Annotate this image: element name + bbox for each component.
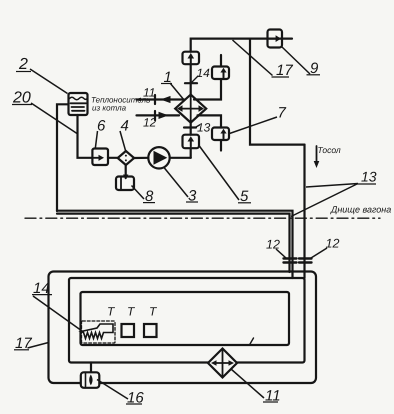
heat exchanger diamond 1 bbox=[175, 95, 206, 123]
pump box above heat exchanger bbox=[183, 52, 200, 64]
valve box 9 bbox=[268, 30, 283, 48]
tick valve 14 bbox=[185, 82, 197, 84]
leader 17 bottom bbox=[28, 343, 49, 349]
wagon floor dash-dot line bbox=[25, 217, 380, 219]
leader 11 bottom bbox=[231, 369, 264, 398]
leader 8 bbox=[132, 186, 145, 200]
svg-text:6: 6 bbox=[97, 118, 106, 135]
svg-text:13: 13 bbox=[197, 121, 211, 135]
coupling 12 right bbox=[299, 257, 312, 259]
underline label 16 bbox=[126, 403, 142, 405]
underline label 20 bbox=[12, 104, 32, 106]
underline label 1 bbox=[161, 83, 172, 85]
leader 20 bbox=[31, 103, 77, 134]
wire tank bottom pipe bbox=[78, 115, 93, 158]
svg-text:7: 7 bbox=[278, 105, 287, 122]
wire double supply line to underfloor tank bbox=[57, 211, 293, 278]
underline label 8 bbox=[143, 202, 155, 204]
underline label 17 bottom bbox=[14, 349, 29, 351]
valve diamond 4 bbox=[118, 151, 134, 165]
heater element 14 bbox=[81, 324, 113, 339]
svg-text:8: 8 bbox=[145, 188, 154, 205]
underline label 13 right bbox=[357, 183, 376, 185]
expansion tank 2 bbox=[69, 93, 88, 115]
svg-text:2: 2 bbox=[18, 56, 28, 73]
svg-text:14: 14 bbox=[33, 280, 50, 297]
leader 9 bbox=[282, 47, 311, 75]
svg-text:12: 12 bbox=[143, 116, 157, 130]
coupling 12 left bbox=[284, 257, 297, 259]
wire top header line bbox=[191, 39, 292, 52]
wire outlet line 11 bbox=[137, 98, 185, 100]
wire right pipe down to tank B bbox=[303, 145, 305, 278]
leader 6 bbox=[95, 131, 97, 149]
underline label 2 bbox=[16, 71, 31, 73]
middle tank shell B bbox=[69, 278, 305, 363]
svg-text:12: 12 bbox=[266, 238, 280, 252]
leader lines bbox=[28, 40, 359, 399]
wire tank left pipe 20 bbox=[57, 104, 69, 211]
svg-text:Днище вагона: Днище вагона bbox=[330, 205, 391, 215]
svg-text:20: 20 bbox=[12, 90, 31, 107]
leader 13 right upper bbox=[306, 184, 358, 188]
sensor box lower right bbox=[198, 115, 222, 127]
thermostat square 2 bbox=[122, 324, 135, 337]
leader 4 bbox=[120, 131, 126, 151]
drain valve 16 bbox=[90, 363, 92, 373]
svg-text:из котла: из котла bbox=[92, 104, 127, 113]
underline label 14 bottom bbox=[32, 294, 52, 296]
svg-text:11: 11 bbox=[265, 388, 281, 405]
underline label 11 bottom bbox=[263, 401, 278, 403]
pump box 5 below diamond bbox=[183, 135, 200, 149]
Tosol arrow bbox=[316, 146, 318, 162]
wire inlet line 12 bbox=[137, 114, 180, 116]
wire valve4 to pump bbox=[134, 157, 148, 159]
svg-text:1: 1 bbox=[164, 69, 172, 86]
svg-text:13: 13 bbox=[361, 169, 377, 185]
tick on inner tank bottom bbox=[250, 338, 254, 344]
leader 2 bbox=[30, 69, 68, 94]
circulation valve diamond 11 bbox=[208, 349, 237, 378]
svg-text:14: 14 bbox=[197, 66, 211, 80]
leader 3 bbox=[164, 168, 188, 198]
svg-text:3: 3 bbox=[188, 188, 197, 205]
leader 12 left bbox=[276, 249, 286, 258]
inner tank C bbox=[81, 292, 290, 345]
svg-text:Тосол: Тосол bbox=[318, 145, 341, 155]
wire box6 to valve 4 bbox=[108, 157, 118, 159]
pump 3 bbox=[148, 147, 169, 168]
underline label 17 top bbox=[272, 76, 290, 78]
leader 17 top bbox=[233, 40, 273, 76]
leader 5 bbox=[199, 146, 239, 201]
relay box 8 bbox=[125, 165, 127, 178]
svg-text:4: 4 bbox=[121, 118, 129, 135]
svg-text:5: 5 bbox=[240, 188, 249, 205]
underlines bbox=[12, 72, 376, 405]
underline label 3 bbox=[186, 201, 198, 203]
sensor box upper right bbox=[220, 55, 222, 67]
underline label 9 bbox=[307, 74, 321, 76]
underline label 5 bbox=[238, 202, 251, 204]
filter box 6 bbox=[92, 149, 108, 166]
wire box to diamond with tick 14 bbox=[190, 64, 192, 94]
svg-text:16: 16 bbox=[127, 390, 144, 407]
leader 14 bottom bbox=[33, 296, 82, 331]
thermostat square 3 bbox=[144, 324, 157, 337]
wire vertical drop from header to Tosol corner bbox=[250, 39, 305, 145]
svg-text:12: 12 bbox=[326, 237, 340, 251]
leader 1 bbox=[170, 83, 185, 101]
leader 12 right bbox=[311, 248, 327, 258]
leader 13 right lower bbox=[291, 184, 358, 217]
leader 16 bbox=[97, 380, 128, 400]
tick valve 13 bbox=[190, 123, 192, 135]
svg-text:9: 9 bbox=[310, 60, 319, 77]
svg-text:17: 17 bbox=[15, 335, 32, 352]
outer tank shell A bbox=[49, 272, 317, 384]
leader 7 bbox=[230, 117, 278, 134]
svg-text:17: 17 bbox=[276, 62, 293, 79]
wire pump to riser bbox=[170, 157, 191, 159]
heater element 14 dashed box bbox=[82, 321, 116, 343]
